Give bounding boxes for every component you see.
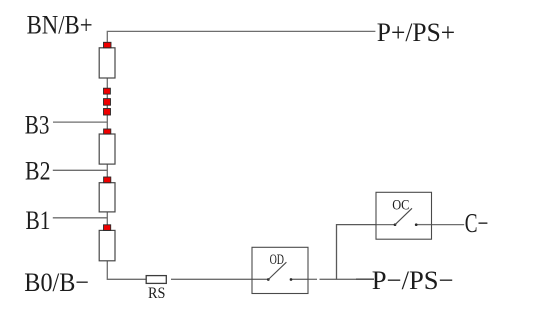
svg-text:B2: B2 bbox=[25, 156, 51, 186]
svg-text:P+/PS+: P+/PS+ bbox=[377, 17, 455, 47]
svg-text:P−/PS−: P−/PS− bbox=[372, 265, 454, 295]
svg-text:C−: C− bbox=[465, 208, 489, 238]
svg-text:B0/B−: B0/B− bbox=[24, 267, 89, 297]
svg-text:OC: OC bbox=[392, 197, 409, 213]
svg-text:BN/B+: BN/B+ bbox=[27, 10, 93, 40]
svg-text:RS: RS bbox=[148, 285, 165, 302]
svg-text:B1: B1 bbox=[26, 205, 51, 235]
svg-text:OD: OD bbox=[270, 252, 285, 268]
svg-text:B3: B3 bbox=[25, 109, 50, 139]
